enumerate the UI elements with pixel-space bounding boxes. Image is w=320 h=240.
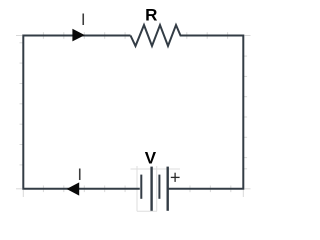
svg-text:I: I <box>77 165 82 184</box>
svg-text:I: I <box>81 10 86 29</box>
svg-text:V: V <box>145 148 157 167</box>
svg-text:R: R <box>145 5 157 24</box>
